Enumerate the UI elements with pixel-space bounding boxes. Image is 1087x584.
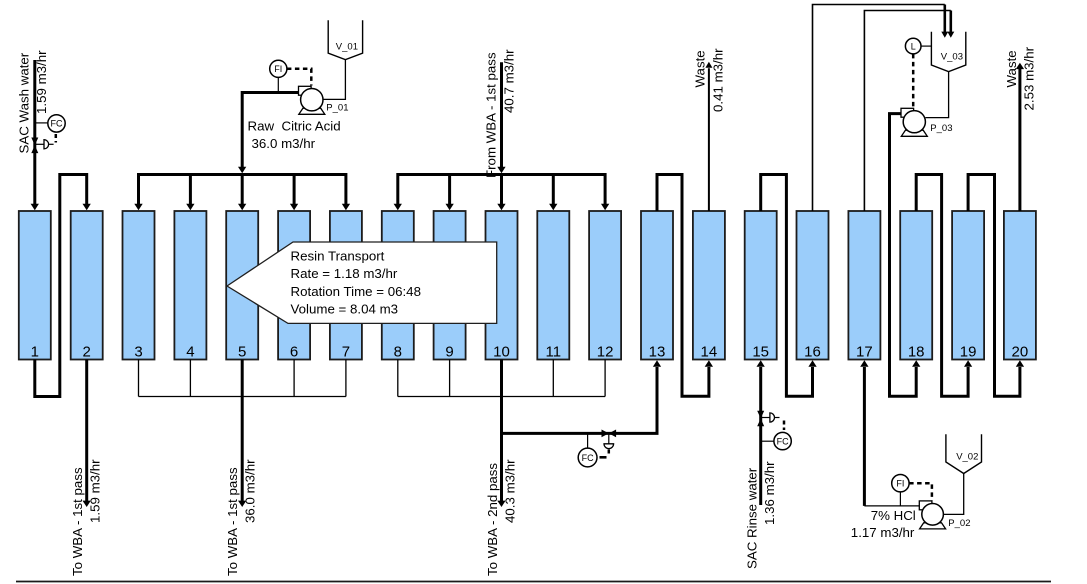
svg-text:40.3 m3/hr: 40.3 m3/hr [503,459,518,523]
column 2 [71,211,103,361]
control valve on SAC rinse line [757,411,779,427]
svg-text:2.53 m3/hr: 2.53 m3/hr [1021,46,1036,110]
wire P_03 discharge to column 18 bottom [890,114,921,397]
svg-text:1.36 m3/hr: 1.36 m3/hr [762,461,777,525]
wire SAC wash water feed into column 1 [31,60,39,210]
wire column 2 outlet to WBA 1st pass [83,360,91,508]
control valve on SAC wash line [31,138,53,154]
svg-text:To WBA - 1st pass: To WBA - 1st pass [225,467,240,576]
svg-text:FI: FI [896,479,904,489]
vessel V_02 [946,434,982,473]
label 1.17 m3/hr [851,525,915,540]
svg-text:2: 2 [83,344,91,361]
wire bottom collection manifold columns 3-7 [139,360,346,397]
column 15 [745,211,777,361]
svg-text:19: 19 [960,344,977,361]
vessel V_01 [328,20,362,59]
pump P_01 [299,86,349,114]
svg-text:From WBA - 1st pass: From WBA - 1st pass [483,52,498,178]
svg-text:P_01: P_01 [326,102,348,113]
label 1.59 m3/hr (col2 outlet) [88,459,103,523]
svg-text:3: 3 [134,344,142,361]
label SAC Rinse water [745,467,760,569]
wire waste line from column 14 top [705,62,712,211]
column 1 [19,211,51,361]
wire SAC rinse water feed into column 15 [757,360,765,505]
svg-text:1: 1 [31,344,39,361]
svg-text:20: 20 [1012,344,1029,361]
svg-text:5: 5 [238,344,246,361]
label 1.59 m3/hr (SAC wash) [34,50,49,114]
column 9 [434,211,466,361]
label Raw Citric Acid [248,118,341,133]
svg-text:4: 4 [186,344,194,361]
svg-text:8: 8 [394,344,402,361]
column 20 [1004,211,1036,361]
column 12 [589,211,621,361]
label 2.53 m3/hr [1021,46,1036,110]
svg-text:15: 15 [752,344,769,361]
column 11 [537,211,569,361]
column 18 [900,211,932,361]
svg-text:1.17 m3/hr: 1.17 m3/hr [851,525,915,540]
svg-text:To WBA - 1st pass: To WBA - 1st pass [70,467,85,576]
wire column 10 outlet to WBA 2nd pass [497,360,505,508]
svg-text:7: 7 [342,344,350,361]
wire loop column 15 top to column 16 bottom [761,175,817,397]
svg-text:13: 13 [649,344,666,361]
svg-text:10: 10 [493,344,510,361]
label 1.36 m3/hr [762,461,777,525]
wire V_02 outlet to P_02 suction [943,474,963,515]
column 13 [641,211,673,361]
wire bottom collection manifold columns 8-12 [398,360,605,397]
wire top distribution manifold columns 8-12 [394,175,610,211]
controller FI on citric feed [270,60,312,91]
label Waste (col14) [693,50,708,87]
wire V_03 outlet to P_03 suction [926,72,949,118]
svg-text:FC: FC [582,453,594,463]
pump P_03 [901,108,952,136]
controller FC on SAC wash line [35,115,65,143]
svg-text:Rotation Time = 06:48: Rotation Time = 06:48 [291,284,421,299]
column 3 [123,211,155,361]
svg-text:V_01: V_01 [336,41,358,52]
svg-text:36.0 m3/hr: 36.0 m3/hr [242,459,257,523]
label To WBA - 1st pass (col2) [70,467,85,576]
wire V_01 outlet to P_01 suction [323,60,345,100]
column 5 [226,211,258,361]
wire top distribution manifold columns 3-7 [134,175,350,211]
svg-text:36.0 m3/hr: 36.0 m3/hr [252,136,316,151]
column 19 [952,211,984,361]
wire column 16 top to vessel V_03 [813,5,949,212]
svg-text:FC: FC [777,436,789,446]
svg-text:V_02: V_02 [956,452,978,463]
controller FC on SAC rinse line [761,421,792,450]
svg-text:0.41 m3/hr: 0.41 m3/hr [710,48,725,112]
column 8 [382,211,414,361]
svg-text:1.59 m3/hr: 1.59 m3/hr [34,50,49,114]
wire 7% HCl feed from P_02 into column 17 [860,360,919,506]
label 7% HCl [871,508,916,523]
svg-text:Volume = 8.04 m3: Volume = 8.04 m3 [291,302,399,317]
svg-text:6: 6 [290,344,298,361]
callout Resin Transport note [227,242,497,323]
svg-text:Resin Transport: Resin Transport [291,249,385,264]
controller FC on transfer line [578,433,609,467]
svg-text:12: 12 [597,344,614,361]
svg-text:17: 17 [856,344,873,361]
wire loop column 13 top to column 14 bottom [657,175,713,397]
label To WBA - 1st pass (col5) [225,467,240,576]
label 36.0 m3/hr (citric feed) [252,136,316,151]
vessel V_03 [931,32,965,72]
wire column 17 top to vessel V_03 [864,11,954,212]
column 6 [278,211,310,361]
svg-text:7% HCl: 7% HCl [871,508,916,523]
label From WBA - 1st pass [483,52,498,178]
wire loop column 1 bottom to column 2 top [35,175,91,397]
svg-text:9: 9 [445,344,453,361]
svg-text:11: 11 [546,344,562,361]
column 14 [693,211,725,361]
svg-text:FI: FI [274,64,282,74]
wire transfer line to column 13 bottom [502,360,662,433]
label SAC Wash water [16,52,31,153]
label To WBA - 2nd pass [485,463,500,576]
svg-text:16: 16 [804,344,821,361]
control valve on transfer line [602,430,617,449]
svg-text:Rate = 1.18 m3/hr: Rate = 1.18 m3/hr [291,266,398,281]
label 40.3 m3/hr [503,459,518,523]
svg-text:FC: FC [51,119,63,129]
label 40.7 m3/hr [502,49,517,113]
label 36.0 m3/hr (col5 outlet) [242,459,257,523]
wire From WBA - 1st pass feed line [497,62,505,173]
svg-text:P_03: P_03 [930,123,952,134]
column 17 [848,211,880,361]
svg-text:40.7 m3/hr: 40.7 m3/hr [502,49,517,113]
svg-text:14: 14 [701,344,718,361]
label Waste (col20) [1004,50,1019,87]
column 7 [330,211,362,361]
svg-text:To WBA - 2nd pass: To WBA - 2nd pass [485,463,500,576]
svg-text:1.59 m3/hr: 1.59 m3/hr [88,459,103,523]
svg-text:SAC Wash water: SAC Wash water [16,52,31,153]
svg-text:Raw Citric Acid: Raw Citric Acid [248,118,341,133]
pump P_02 [919,501,970,529]
wire loop column 18 top to column 19 bottom [916,175,972,397]
wire waste line from column 20 top [1016,63,1024,211]
controller L (level) on V_03 [905,38,931,108]
svg-text:Waste: Waste [1004,50,1019,87]
column 4 [174,211,206,361]
svg-text:Waste: Waste [693,50,708,87]
wire raw citric acid feed from P_01 to manifold [238,93,299,174]
svg-text:P_02: P_02 [948,518,970,529]
column 16 [797,211,829,361]
wire loop column 19 top to column 20 bottom [968,175,1024,397]
svg-text:V_03: V_03 [941,51,963,62]
column 10 [486,211,518,361]
svg-text:SAC Rinse water: SAC Rinse water [745,467,760,569]
controller FI on HCl line [892,475,932,506]
wire column 5 outlet to WBA 1st pass [238,360,246,508]
svg-text:L: L [911,41,916,51]
svg-text:18: 18 [908,344,925,361]
label 0.41 m3/hr [710,48,725,112]
